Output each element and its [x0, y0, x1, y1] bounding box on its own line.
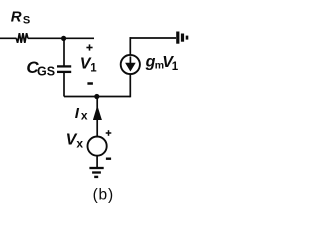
- node: junction dot at source node: [94, 94, 99, 99]
- label CGS: [26, 58, 55, 79]
- capacitor CGS: [57, 66, 71, 72]
- wire: current source bottom lead to bottom rail: [129, 74, 131, 97]
- svg-text:1: 1: [172, 61, 179, 73]
- caption (b): [93, 186, 114, 203]
- svg-text:1: 1: [90, 62, 97, 74]
- label V1 with polarity: [80, 44, 98, 83]
- wire: current source top lead and horizontal run to ground: [130, 37, 177, 55]
- svg-text:R: R: [11, 8, 22, 25]
- resistor RS: [16, 33, 28, 43]
- wire: Vx bottom lead: [96, 156, 98, 167]
- wire: vertical with Ix arrow from Vx to source node: [93, 97, 102, 137]
- wire: vertical from capacitor bottom plate to bottom rail: [63, 73, 65, 97]
- svg-text:GS: GS: [37, 65, 55, 79]
- label RS: [11, 8, 30, 26]
- wire: top segment from resistor to open end: [28, 37, 94, 39]
- label gmV1: [145, 53, 179, 73]
- ground under Vx: [89, 168, 103, 177]
- wire: left input segment: [0, 37, 17, 39]
- ground at top right (rotated): [178, 32, 187, 44]
- svg-text:x: x: [81, 108, 88, 122]
- svg-text:x: x: [76, 137, 83, 151]
- svg-text:S: S: [23, 15, 30, 27]
- node: junction dot at gate node: [61, 36, 66, 41]
- wire: vertical from junction to capacitor top plate: [63, 38, 65, 66]
- svg-text:(b): (b): [93, 186, 114, 203]
- label Ix: [75, 105, 88, 122]
- label Vx with polarity: [66, 130, 112, 159]
- current source gmV1 (dependent): [121, 55, 140, 74]
- wire: bottom rail: [64, 96, 130, 98]
- source Vx (independent voltage source): [88, 137, 107, 156]
